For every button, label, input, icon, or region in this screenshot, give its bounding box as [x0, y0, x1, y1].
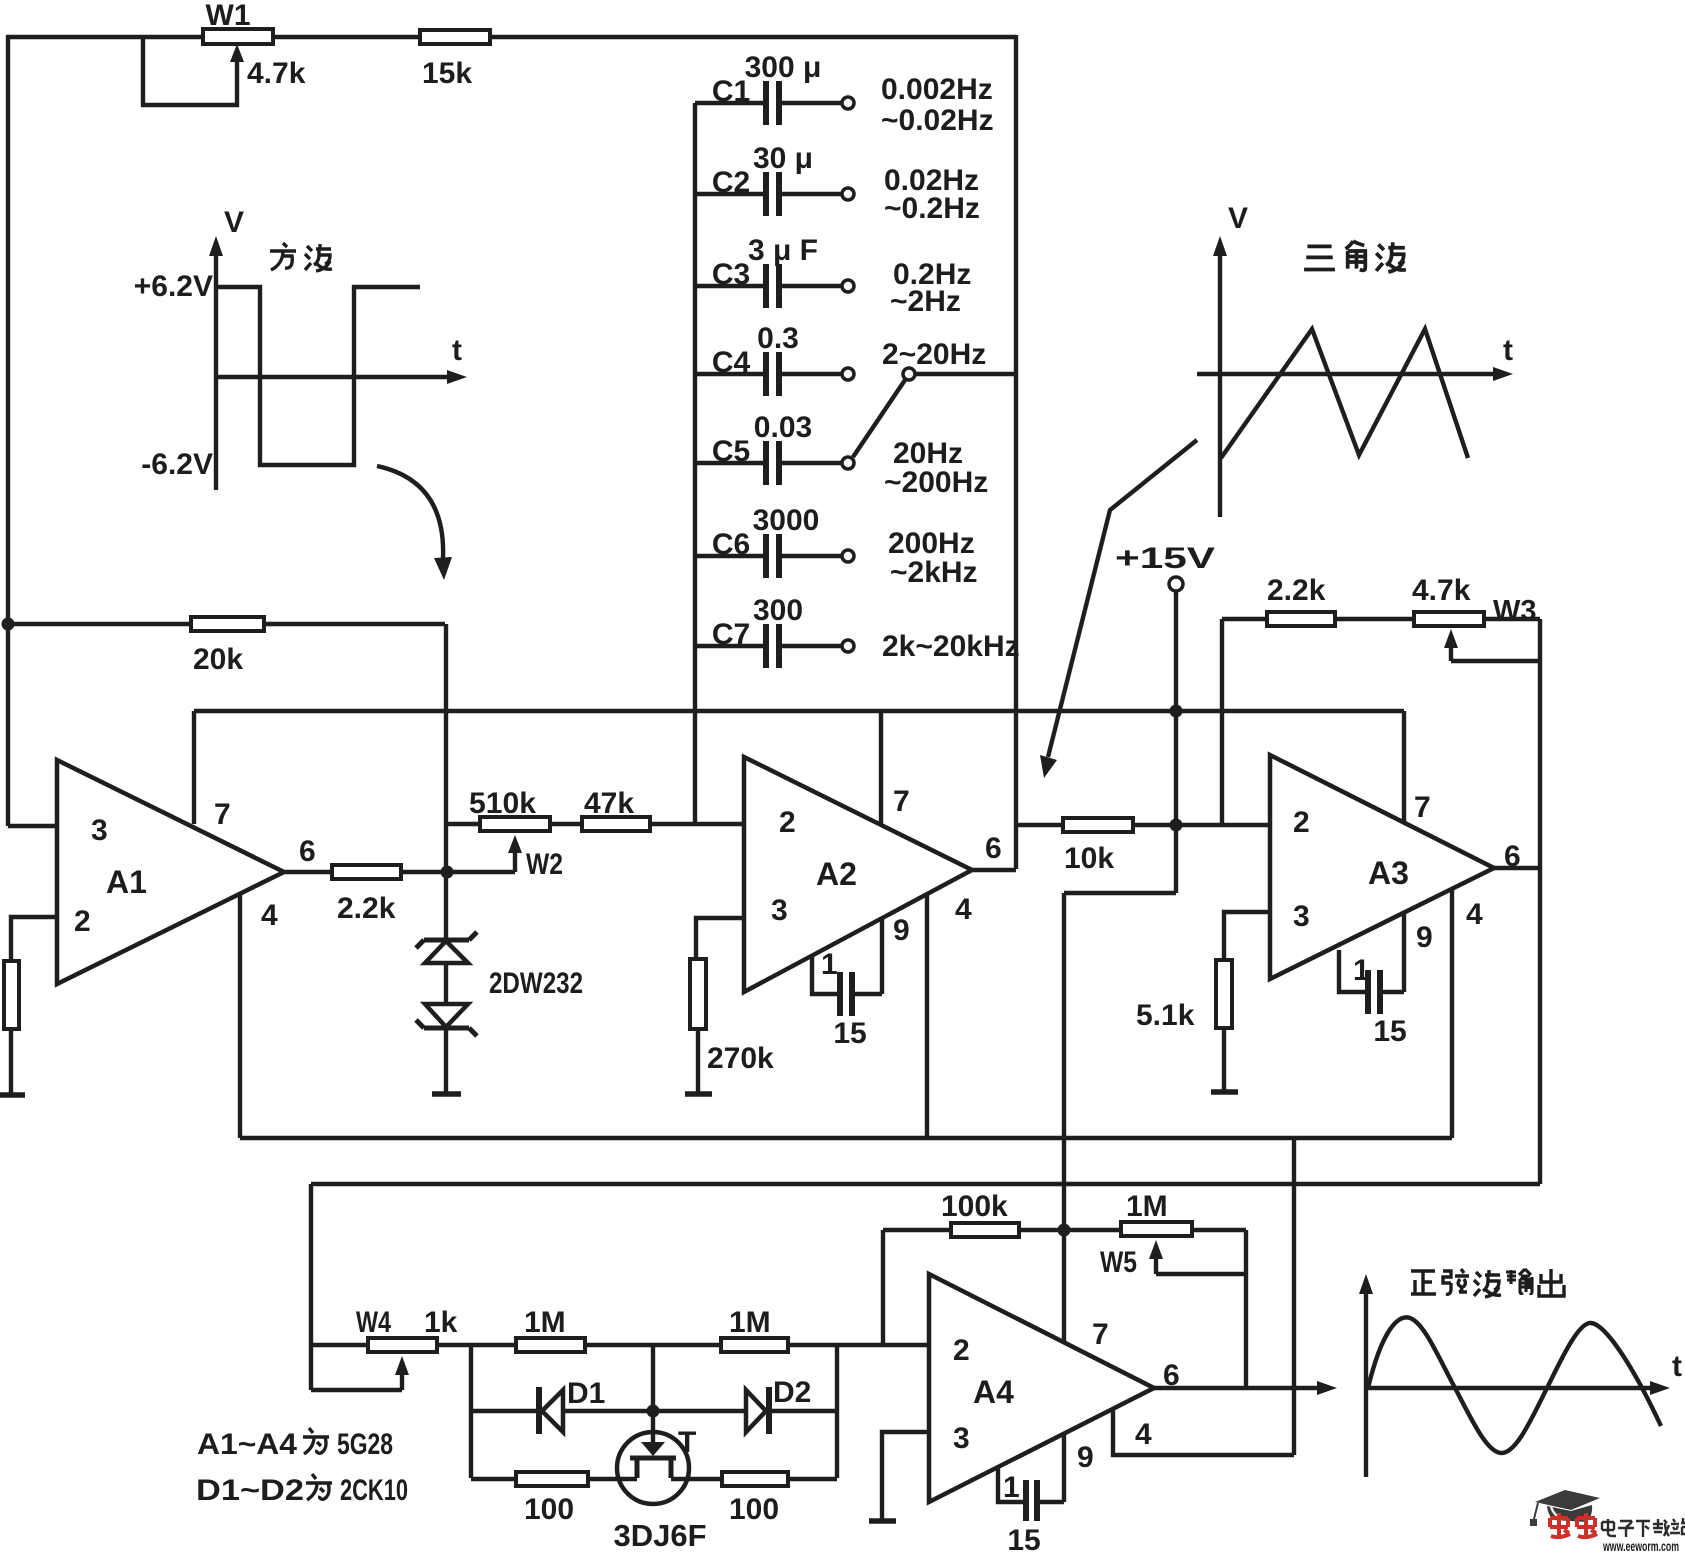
svg-text:W4: W4: [356, 1306, 391, 1339]
svg-text:2: 2: [1293, 806, 1310, 839]
capacitor C7 300: [695, 594, 1020, 668]
svg-text:4: 4: [1466, 898, 1483, 931]
svg-text:15k: 15k: [422, 57, 472, 90]
svg-text:20k: 20k: [193, 643, 243, 676]
pointer arrow from triangle graph to A2 output node: [1040, 440, 1197, 778]
wire: A4 pin 4 bracket up to V- bus: [1113, 1138, 1294, 1455]
svg-text:270k: 270k: [707, 1042, 774, 1075]
resistor 15k: [420, 30, 490, 90]
+15V supply terminal: [1064, 542, 1215, 1342]
svg-text:+6.2V: +6.2V: [134, 270, 213, 303]
svg-text:1M: 1M: [1126, 1190, 1168, 1223]
capacitor C2 30u: [695, 142, 980, 225]
svg-text:0.002Hz: 0.002Hz: [881, 73, 993, 106]
wire: vertical from 20k to zener stack: [444, 624, 448, 940]
V axis: [1364, 1288, 1368, 1477]
wire: right vertical from W3 row down to bus2: [1538, 619, 1542, 1184]
svg-text:4.7k: 4.7k: [1412, 574, 1471, 607]
svg-text:5G28: 5G28: [337, 1428, 393, 1461]
node: 10k / +15V column junction: [1170, 819, 1183, 832]
capacitor 15 (A4 pins 1-9): [998, 1434, 1064, 1552]
svg-text:t: t: [452, 334, 462, 367]
graduation cap: [1535, 1490, 1600, 1510]
node: +15V rail junction: [1170, 705, 1183, 718]
wire: A3 pin 3 to 5.1k: [1224, 912, 1270, 960]
square wave trace: [216, 287, 420, 465]
ground (5.1k): [1211, 1089, 1238, 1095]
resistor 10k: [1016, 818, 1270, 875]
svg-text:2CK10: 2CK10: [340, 1474, 408, 1507]
svg-text:100: 100: [524, 1493, 574, 1526]
虫虫 red characters: [1550, 1513, 1597, 1537]
svg-text:A1: A1: [106, 864, 147, 900]
wire: A2 pin 3 to 270k: [696, 918, 744, 959]
svg-text:1k: 1k: [424, 1306, 458, 1339]
capacitor C3 3uF: [695, 234, 971, 318]
svg-text:3: 3: [953, 1422, 970, 1455]
resistor 100 (left): [471, 1472, 588, 1526]
svg-text:10k: 10k: [1064, 842, 1114, 875]
svg-text:2k~20kHz: 2k~20kHz: [882, 630, 1020, 663]
op-amp A3: [1270, 755, 1521, 987]
potentiometer W4 1k: [311, 1184, 516, 1390]
svg-text:C4: C4: [712, 346, 751, 379]
svg-text:15: 15: [833, 1017, 866, 1050]
sine trace: [1368, 1317, 1661, 1453]
svg-text:V: V: [1228, 202, 1248, 235]
svg-text:4: 4: [955, 893, 972, 926]
svg-text:3: 3: [91, 814, 108, 847]
t axis: [1366, 1386, 1656, 1390]
svg-text:9: 9: [893, 914, 910, 947]
wire: A1 pin 3 input: [8, 824, 57, 828]
svg-text:3DJ6F: 3DJ6F: [613, 1518, 706, 1552]
triangle signal bus to sine shaper: [311, 1182, 1540, 1186]
svg-text:T: T: [678, 1426, 696, 1459]
svg-text:+15V: +15V: [1115, 542, 1215, 575]
svg-text:3 μ F: 3 μ F: [748, 234, 818, 267]
resistor 100k (A4 feedback): [883, 1190, 1121, 1237]
triangle wave trace: [1221, 329, 1468, 458]
svg-text:A2: A2: [816, 856, 857, 892]
wire: A2 pin 4 riser: [925, 894, 929, 1138]
wire: [1222, 1028, 1226, 1092]
diode D2 2CK10: [746, 1376, 837, 1434]
svg-text:15: 15: [1373, 1015, 1406, 1048]
svg-text:15: 15: [1007, 1524, 1040, 1552]
wire: left vertical of 2.2k row down to pin2 row: [1220, 619, 1224, 825]
watermark logo (eeworm): [1530, 1490, 1685, 1552]
wire: left riser of diode network: [469, 1345, 473, 1478]
svg-text:100: 100: [729, 1493, 779, 1526]
svg-text:-6.2V: -6.2V: [141, 448, 213, 481]
sine output graph (正弦波输出): [1359, 1269, 1682, 1477]
resistor 2.2k (A1 output): [284, 865, 515, 925]
resistor 47k: [582, 787, 744, 831]
resistor 270k: [690, 959, 774, 1075]
wire: A1 pin 2 to input resistor: [11, 917, 57, 961]
wire: [9, 1029, 13, 1095]
svg-text:4: 4: [1135, 1418, 1152, 1451]
square-wave graph (方波): [134, 206, 467, 490]
op-amp A4: [929, 1274, 1180, 1504]
svg-text:2: 2: [779, 806, 796, 839]
svg-text:C6: C6: [712, 528, 750, 561]
svg-text:2: 2: [953, 1334, 970, 1367]
resistor (A1 pin 2 to ground): [4, 961, 19, 1029]
potentiometer W2 510k: [446, 787, 582, 881]
svg-text:W3: W3: [1493, 595, 1537, 627]
label 正弦波输出: [1411, 1271, 1436, 1294]
svg-text:W1: W1: [206, 0, 251, 32]
potentiometer W5 1M: [1100, 1190, 1246, 1388]
svg-text:1M: 1M: [729, 1306, 771, 1339]
node: A1 output junction: [441, 866, 454, 879]
svg-text:6: 6: [299, 835, 316, 868]
svg-text:3: 3: [1293, 900, 1310, 933]
op-amp A2: [744, 757, 1002, 992]
wire: riser from 100k feedback to 1M row: [881, 1230, 885, 1345]
range switch on C4/C5: [853, 368, 1016, 457]
svg-text:7: 7: [1092, 1318, 1109, 1351]
svg-text:2.2k: 2.2k: [1267, 574, 1326, 607]
svg-text:1M: 1M: [524, 1306, 566, 1339]
svg-text:9: 9: [1416, 921, 1433, 954]
svg-text:2~20Hz: 2~20Hz: [882, 338, 986, 371]
wire: [696, 1029, 700, 1094]
zener diode pair 2DW232: [416, 932, 583, 1094]
svg-text:~2Hz: ~2Hz: [890, 285, 961, 318]
svg-text:C2: C2: [712, 166, 750, 199]
svg-text:~2kHz: ~2kHz: [890, 556, 978, 589]
svg-text:~0.02Hz: ~0.02Hz: [881, 104, 994, 137]
V axis: [1218, 248, 1222, 517]
resistor 1M (first): [516, 1306, 721, 1352]
wire: right riser of diode network: [835, 1345, 839, 1478]
svg-text:A3: A3: [1368, 855, 1409, 891]
svg-text:www.eeworm.com: www.eeworm.com: [1602, 1538, 1679, 1552]
svg-text:9: 9: [1077, 1441, 1094, 1474]
V axis: [214, 248, 218, 490]
wire: A3 pin 7 riser: [1402, 711, 1406, 823]
resistor 20k: [8, 617, 445, 676]
resistor 2.2k (A3 feedback): [1222, 574, 1414, 626]
V+ supply rail (pin 7 rail): [194, 709, 1404, 713]
svg-text:~0.2Hz: ~0.2Hz: [884, 192, 980, 225]
svg-text:C5: C5: [712, 435, 750, 468]
svg-text:7: 7: [214, 798, 231, 831]
svg-text:4.7k: 4.7k: [247, 57, 306, 90]
capacitor 15 (A2 pins 1-9): [812, 917, 882, 1050]
svg-text:7: 7: [893, 785, 910, 818]
wire: A4 output with arrow: [1154, 1381, 1337, 1395]
svg-text:4: 4: [261, 899, 278, 932]
svg-text:5.1k: 5.1k: [1136, 999, 1195, 1032]
svg-text:0.03: 0.03: [754, 411, 812, 444]
curved pointer arrow from square wave to A1 node: [377, 466, 452, 580]
svg-text:D1~D2: D1~D2: [196, 1474, 304, 1507]
svg-text:C3: C3: [712, 258, 750, 291]
svg-text:D2: D2: [773, 1376, 811, 1409]
node: junction of left rail and 20k: [2, 618, 15, 631]
wire: A2 pin 7 riser: [879, 711, 883, 825]
node: diode row / gate junction: [647, 1405, 660, 1418]
svg-text:7: 7: [1414, 791, 1431, 824]
svg-text:D1: D1: [567, 1377, 605, 1410]
svg-text:A1~A4: A1~A4: [197, 1428, 297, 1461]
wire: A3 pin 4 riser: [1450, 889, 1454, 1138]
svg-text:0.3: 0.3: [757, 322, 799, 355]
svg-text:6: 6: [985, 832, 1002, 865]
JFET T 3DJ6F: [588, 1411, 722, 1552]
capacitor C6 3000: [695, 504, 978, 589]
node: junction at 100k/1M row: [1058, 1224, 1071, 1237]
wire: A1 pin 4 riser to V- bus: [238, 894, 242, 1138]
wire: A1 pin 7 riser to V+ rail: [192, 711, 196, 824]
svg-text:A4: A4: [973, 1374, 1014, 1410]
wire: top rail from left corner to capacitor-bank right bus: [7, 35, 1016, 39]
svg-text:100k: 100k: [941, 1190, 1008, 1223]
svg-text:300: 300: [753, 594, 803, 627]
note: A1~A4 are 5G28: [197, 1428, 393, 1461]
ground: [0, 1092, 25, 1098]
potentiometer W1 4.7k: [143, 0, 306, 105]
wire: gate riser from 1M junction: [651, 1345, 655, 1411]
resistor 100 (right): [722, 1472, 837, 1526]
capacitor bank left bus: [693, 103, 697, 824]
svg-text:47k: 47k: [584, 787, 634, 820]
svg-text:3: 3: [771, 894, 788, 927]
电子下载站 black characters: [1602, 1518, 1685, 1537]
capacitor C4 0.3: [695, 322, 986, 396]
ground (zener): [432, 1091, 461, 1097]
svg-text:~200Hz: ~200Hz: [884, 466, 988, 499]
svg-text:300 μ: 300 μ: [745, 51, 822, 84]
note: D1~D2 are 2CK10: [196, 1474, 408, 1507]
svg-text:C7: C7: [712, 618, 750, 651]
resistor 5.1k: [1136, 960, 1232, 1032]
wire: A2 output to right bus: [972, 868, 1016, 872]
potentiometer W3 4.7k: [1412, 574, 1540, 661]
svg-text:1: 1: [821, 948, 838, 981]
svg-text:W2: W2: [526, 848, 563, 881]
op-amp A1: [57, 760, 316, 984]
V- bus (pin 4 bus): [240, 1136, 1452, 1140]
wire: A3 output: [1494, 866, 1540, 870]
wire: A4 pin 3 to ground: [882, 1432, 929, 1521]
svg-text:1: 1: [1003, 1471, 1020, 1504]
ground (270k): [685, 1091, 712, 1097]
svg-text:30 μ: 30 μ: [753, 142, 813, 175]
t axis: [1197, 372, 1498, 376]
svg-text:2DW232: 2DW232: [489, 967, 583, 1000]
capacitor 15 (A3 pins 1-9): [1339, 913, 1407, 1048]
label 方波: [270, 243, 296, 270]
svg-text:t: t: [1503, 334, 1513, 367]
diode D1 2CK10: [471, 1377, 744, 1434]
capacitor bank right bus (from top rail down to A2 output): [1014, 35, 1018, 869]
svg-text:t: t: [1672, 1350, 1682, 1383]
capacitor C1 300u: [695, 51, 994, 137]
svg-text:W5: W5: [1100, 1246, 1137, 1279]
capacitor C5 0.03: [695, 411, 988, 499]
svg-text:2: 2: [74, 905, 91, 938]
ground (A4 pin 3): [869, 1518, 896, 1524]
resistor 1M (second): [721, 1306, 929, 1352]
wire: left vertical rail down to A1 pin 3: [6, 35, 10, 826]
svg-text:2.2k: 2.2k: [337, 892, 396, 925]
t axis: [216, 375, 452, 379]
label 三角波: [1304, 246, 1335, 269]
svg-text:3000: 3000: [753, 504, 820, 537]
svg-text:510k: 510k: [469, 787, 536, 820]
triangle-wave graph (三角波): [1197, 202, 1513, 517]
svg-text:V: V: [224, 206, 244, 239]
